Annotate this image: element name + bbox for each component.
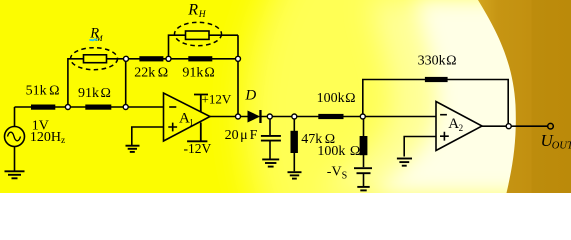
resistor 91k2 bar [188, 56, 212, 61]
junction 100k-330k tap [360, 114, 365, 119]
svg-text:D: D [244, 87, 256, 103]
junction A1 output [236, 114, 241, 119]
wire 47k stub [293, 117, 295, 132]
svg-text:-12V: -12V [184, 141, 212, 156]
junction RH right [236, 56, 241, 61]
junction A2 output [506, 124, 511, 129]
capacitor -Vs [354, 168, 372, 173]
svg-text:M: M [95, 33, 104, 43]
svg-text:20μF: 20μF [225, 128, 258, 143]
AC source V1 [5, 127, 25, 147]
wire 47k to ground [293, 153, 295, 172]
wire 330k feedback [363, 80, 508, 127]
svg-text:2: 2 [459, 123, 464, 133]
resistor RH box [186, 31, 210, 39]
svg-text:H: H [198, 10, 207, 20]
wire 100kv stub [363, 117, 365, 137]
svg-text:51kΩ: 51kΩ [26, 84, 60, 99]
resistor 100k horizontal bar [318, 114, 343, 119]
junction node B [123, 105, 128, 110]
wire RM right [107, 58, 127, 60]
svg-text:R: R [187, 1, 198, 18]
wire A1 out to diode [210, 116, 248, 118]
junction cap20 tap [267, 114, 272, 119]
wire node B up-leg [125, 59, 127, 107]
resistor 47k bar [291, 131, 298, 153]
svg-text:91kΩ: 91kΩ [78, 86, 111, 101]
junction RM right top [124, 56, 129, 61]
resistor 100k vertical bar [360, 136, 368, 155]
op-amp A1 [164, 93, 211, 141]
svg-text:100kΩ: 100kΩ [317, 144, 360, 159]
wire RH left leg [169, 35, 186, 59]
resistor 91k bar [85, 105, 111, 110]
background dark gold region [478, 0, 571, 193]
wire 100kv to cap [363, 155, 365, 167]
svg-text:+12V: +12V [202, 91, 232, 106]
wire RH right [209, 34, 238, 36]
wire RH right leg down [237, 35, 239, 116]
svg-text:22kΩ: 22kΩ [134, 66, 168, 81]
svg-text:91kΩ: 91kΩ [182, 66, 214, 81]
ground A2 plus [397, 159, 412, 166]
-12V supply [187, 123, 207, 142]
RH dashed ellipse [175, 22, 222, 45]
terminal Uout [548, 123, 554, 129]
wire source drop [14, 107, 16, 127]
background cream blob [370, 0, 571, 193]
wire A2 out [482, 125, 547, 127]
background mid2 blob [318, 0, 571, 193]
wire diode to A2 [262, 116, 437, 118]
wire A1 plus to ground [132, 127, 164, 145]
ground 47k [288, 172, 302, 178]
wire 22k 91k row [126, 58, 238, 60]
junction 47k tap [292, 114, 297, 119]
ground cap20 [262, 159, 279, 166]
resistor 22k bar [139, 56, 163, 61]
wire source to ground [14, 147, 16, 172]
RM dashed ellipse [71, 48, 118, 70]
ground A1 plus [126, 146, 140, 152]
svg-text:OUT: OUT [552, 140, 571, 151]
junction node A [65, 105, 70, 110]
svg-text:330kΩ: 330kΩ [418, 53, 457, 68]
resistor 51k bar [31, 105, 55, 110]
svg-text:120Hz: 120Hz [30, 130, 65, 146]
junction RH left [166, 56, 171, 61]
diode D [248, 111, 259, 121]
wire main left [15, 106, 164, 108]
+12V supply [194, 95, 208, 112]
wire capVs to ground [363, 174, 365, 186]
ground under source [5, 171, 25, 178]
wire A2 plus to ground [404, 137, 436, 157]
resistor 330k bar [425, 77, 448, 82]
capacitor 20uF [261, 136, 281, 141]
op-amp A2 [436, 102, 482, 151]
background mid-light blob [245, 0, 571, 240]
wire cap20 stub [269, 117, 271, 136]
wire cap20 to ground [269, 141, 271, 159]
ground -Vs [357, 187, 369, 191]
svg-text:100kΩ: 100kΩ [317, 91, 356, 106]
resistor RM box [84, 55, 107, 63]
svg-text:1: 1 [189, 118, 194, 128]
wire node A up-leg [68, 59, 84, 107]
